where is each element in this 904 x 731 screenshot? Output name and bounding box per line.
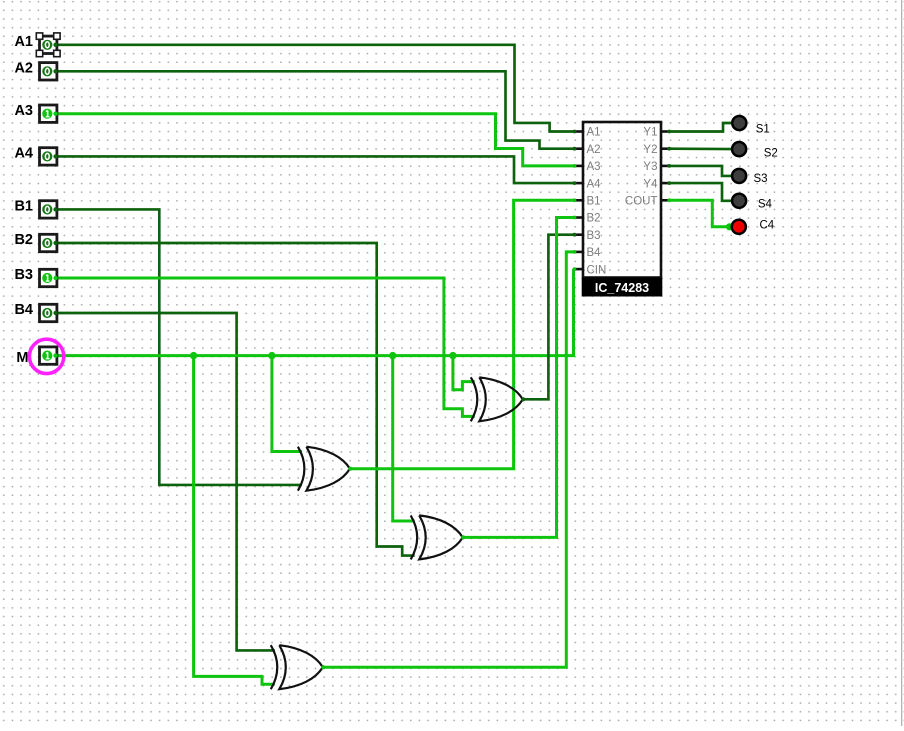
svg-text:A1: A1 [587, 127, 601, 139]
xor gate U3 (B2 xor M) [411, 515, 466, 559]
IC pin Y4 stub [660, 182, 669, 185]
svg-text:B3: B3 [587, 230, 601, 242]
IC pin COUT stub [660, 199, 669, 202]
led S2 [732, 142, 746, 156]
wire M branch to XOR U3 upper input [393, 356, 415, 521]
svg-text:B4: B4 [14, 302, 33, 318]
svg-text:S2: S2 [764, 148, 778, 160]
IC pin A2 stub [576, 147, 585, 150]
svg-text:COUT: COUT [625, 196, 658, 208]
xor gate U4 (B4 xor M) [271, 645, 326, 689]
svg-text:A2: A2 [587, 144, 601, 156]
input toggle B2 [40, 234, 58, 251]
svg-text:Y3: Y3 [643, 161, 657, 173]
wire B2 input to XOR U3 lower input [57, 243, 415, 556]
input toggle A4 [40, 148, 58, 165]
input toggle A2 [40, 63, 58, 80]
magenta selection circle on M [29, 339, 63, 373]
svg-text:M: M [16, 350, 28, 366]
svg-text:Y1: Y1 [643, 127, 657, 139]
svg-text:Y4: Y4 [643, 178, 658, 190]
input toggle A3 [40, 105, 58, 122]
connection dot at C4 [726, 223, 733, 230]
svg-text:S3: S3 [754, 173, 768, 185]
svg-text:A1: A1 [14, 34, 33, 50]
wire IC COUT to LED C4 [669, 200, 731, 227]
junction on M wire 2 [268, 352, 275, 359]
wire M branch to XOR U2 upper input [272, 356, 302, 452]
svg-text:CIN: CIN [587, 264, 607, 276]
svg-text:B3: B3 [14, 267, 33, 283]
junction on M wire 1 [190, 352, 197, 359]
wire IC Y2 to LED S2 [669, 147, 732, 150]
IC pin A3 stub [576, 165, 585, 168]
svg-text:A3: A3 [14, 103, 33, 119]
input toggle B4 [40, 304, 58, 321]
svg-text:S1: S1 [756, 124, 770, 136]
svg-text:B4: B4 [587, 247, 602, 259]
IC pin A4 stub [576, 182, 585, 185]
IC pin B2 stub [576, 216, 585, 219]
svg-text:Y2: Y2 [643, 144, 657, 156]
IC pin B3 stub [576, 233, 585, 236]
svg-text:C4: C4 [760, 219, 775, 231]
led S1 [732, 116, 746, 130]
svg-text:S4: S4 [758, 198, 773, 210]
xor gate U1 (B3 xor M) [471, 377, 526, 421]
svg-text:A4: A4 [14, 146, 33, 162]
wire B3 input to XOR U1 lower input [57, 278, 475, 416]
wire B1 input to XOR U2 lower input [57, 209, 302, 485]
wire A3 input to IC pin A3 [57, 114, 576, 166]
wire M input bus to CIN [57, 269, 574, 356]
wire IC Y1 to LED S1 [669, 123, 732, 132]
wire IC Y3 to LED S3 [669, 166, 732, 176]
svg-text:A3: A3 [587, 161, 601, 173]
wire IC Y4 to LED S4 [669, 183, 732, 201]
junction on M wire 3 [389, 352, 396, 359]
svg-text:B1: B1 [587, 196, 601, 208]
IC pin Y2 stub [660, 147, 669, 150]
input toggle B3 [40, 269, 58, 286]
IC U5 label bar IC_74283 [582, 278, 663, 297]
svg-text:A4: A4 [587, 178, 602, 190]
IC pin Y3 stub [660, 165, 669, 168]
IC pin B4 stub [576, 251, 585, 254]
wire XOR U3 output to IC pin B2 [463, 218, 576, 538]
svg-text:B2: B2 [587, 213, 601, 225]
svg-text:B2: B2 [14, 232, 33, 248]
input toggle B1 [40, 201, 58, 218]
svg-text:IC_74283: IC_74283 [595, 281, 649, 295]
wire XOR U1 output to IC pin B3 [523, 235, 575, 400]
svg-text:A2: A2 [14, 61, 33, 77]
led C4 [732, 220, 746, 234]
IC pin CIN stub [576, 268, 585, 271]
IC pin Y1 stub [660, 130, 669, 133]
wire A2 input to IC pin A2 [57, 71, 576, 148]
IC pin A1 stub [576, 130, 585, 133]
wire M branch to XOR U1 upper input [453, 356, 475, 390]
input toggle M [40, 347, 58, 364]
IC pin B1 stub [576, 199, 585, 202]
wire A4 input to IC pin A4 [57, 156, 576, 183]
svg-text:B1: B1 [14, 199, 33, 215]
wire XOR U4 output to IC pin B4 [323, 252, 576, 667]
wire M branch to XOR U4 lower input [194, 356, 275, 685]
xor gate U2 (B1 xor M) [298, 447, 353, 491]
input toggle A1 [40, 36, 58, 53]
junction on M wire 4 [449, 352, 456, 359]
led S3 [732, 169, 746, 183]
window edge line [901, 0, 902, 726]
IC U5 74283 body [583, 122, 661, 278]
led S4 [732, 194, 746, 208]
wire A1 input to IC pin A1 [57, 45, 576, 132]
wire XOR U2 output to IC pin B1 [350, 200, 576, 468]
selection handles on A1 [36, 33, 60, 57]
wire B4 input to XOR U4 upper input [57, 313, 275, 650]
